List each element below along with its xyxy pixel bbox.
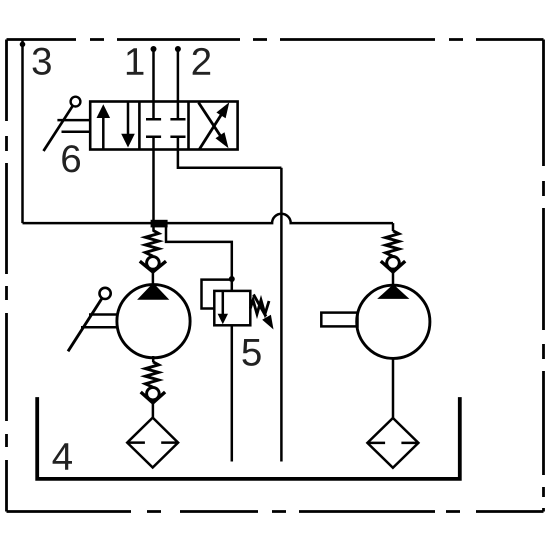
enclosure border bottom (7, 510, 544, 513)
enclosure border right (542, 40, 545, 512)
wire tank return vertical (280, 168, 283, 462)
spring S1 above check valve (145, 231, 158, 257)
wire CV3 to pump P2 (392, 271, 395, 286)
relief valve 5 internal arrow (218, 292, 228, 324)
wire port 2 (177, 49, 180, 102)
check valve CV1 ball (147, 257, 160, 270)
wire port 1 (152, 49, 155, 102)
lever actuator 6 arm (44, 106, 73, 151)
check valve CV2 seat (141, 392, 165, 403)
filter F1 element dashes (127, 441, 178, 444)
wire main horizontal with crossover bridge (23, 214, 394, 223)
wire CV2 to filter F1 (152, 402, 155, 418)
relief valve 5 spring (250, 300, 269, 314)
label 4 (53, 443, 72, 469)
label 1 (127, 48, 144, 74)
label 3 (33, 48, 51, 75)
node port 1 dot (151, 46, 157, 52)
check valve CV3 seat (381, 261, 405, 272)
check valve CV2 ball (147, 387, 160, 400)
pump P1 circle (117, 285, 190, 358)
pump P2 shaft stub (321, 313, 357, 327)
wire branch to relief valve (154, 225, 232, 291)
enclosure border top (dash-dot) (7, 38, 544, 41)
label 2 (193, 48, 211, 75)
spring S3 above check valve CV3 (386, 231, 399, 257)
wire net 3 vertical (21, 40, 24, 224)
relief valve 5 pilot node dot (229, 276, 235, 282)
label 6 (62, 145, 80, 172)
wire valve port B down and right (178, 150, 282, 168)
check valve CV3 ball (387, 257, 400, 270)
relief valve 5 pilot line (202, 280, 232, 309)
lever actuator 6 knob (71, 97, 81, 107)
valve V1 left cell up arrow (97, 104, 111, 148)
valve V1 right cell crossed arrows (199, 102, 230, 149)
node net 3 dot (20, 42, 26, 48)
tank 4 (37, 397, 460, 479)
label 5 (242, 339, 260, 366)
wire right branch down (392, 223, 395, 231)
pump P1 lever fork (81, 315, 118, 328)
pump P2 circle (357, 285, 430, 358)
directional valve V1 body (90, 102, 237, 150)
spring S2 below pump P1 (145, 362, 158, 387)
wire pump P2 to filter F2 (392, 357, 395, 418)
relief valve 5 adjustment arrow (254, 295, 274, 330)
filter F1 diamond (127, 418, 178, 468)
node junction block (151, 220, 168, 228)
wire pump P1 to spring S2 (152, 356, 155, 362)
pump P1 lever arm (68, 298, 102, 351)
wire valve to junction (port A) (152, 150, 155, 232)
pump P1 flow triangle (137, 283, 169, 300)
lever actuator 6 fork (57, 120, 90, 132)
valve V1 left cell down arrow (121, 103, 135, 148)
pump P1 lever knob (100, 288, 111, 299)
filter F2 element dashes (367, 442, 418, 445)
filter F2 diamond (367, 418, 418, 468)
enclosure border left (5, 40, 8, 512)
valve V1 center cell blocked ports (146, 102, 186, 150)
check valve CV1 seat (140, 261, 166, 272)
wire relief valve output to tank (231, 325, 234, 461)
relief valve 5 body (214, 291, 250, 325)
node port 2 dot (175, 46, 181, 52)
wire CV1 to pump P1 (152, 271, 155, 286)
pump P2 flow triangle (377, 284, 409, 299)
